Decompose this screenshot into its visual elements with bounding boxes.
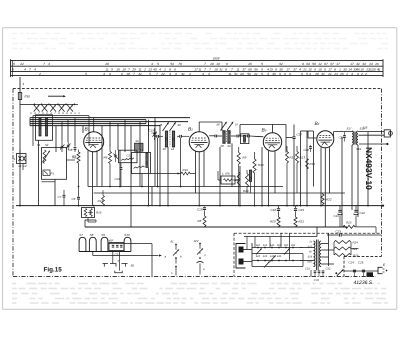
svg-text:4: 4 [103, 72, 105, 76]
resistor R23 horizontal [343, 225, 355, 228]
svg-text:34: 34 [362, 62, 366, 66]
resistor R13 [296, 152, 299, 164]
range pot box [42, 148, 67, 180]
svg-text:C22: C22 [360, 211, 366, 215]
wire B3 anode to C17 [286, 137, 293, 139]
svg-text:7: 7 [204, 67, 206, 71]
output transformer secondary S18 [357, 131, 358, 145]
trimmer C13 [154, 128, 156, 133]
terminal strip numbers [12, 56, 381, 76]
bus corner at 146 [145, 120, 147, 124]
svg-text:R24: R24 [353, 240, 359, 244]
cathode box B3 [241, 134, 249, 144]
svg-text:21: 21 [302, 67, 307, 71]
B4 grid wire [308, 137, 316, 139]
electrolytic C21b [339, 206, 341, 210]
band switch contacts [34, 104, 36, 106]
enclosure dashed border top [13, 88, 382, 90]
svg-text:18: 18 [214, 67, 218, 71]
resistor R9 [237, 153, 240, 165]
resistor R22 [322, 193, 324, 194]
svg-text:13: 13 [148, 67, 152, 71]
svg-text:C24: C24 [349, 261, 355, 265]
svg-text:L1: L1 [19, 164, 23, 168]
svg-text:6: 6 [12, 67, 14, 71]
wire drop to contacts b [119, 251, 121, 271]
wave switch symbol 2 [199, 243, 201, 245]
wire to R10h [151, 173, 182, 175]
resistor R10h [181, 172, 190, 175]
svg-text:5: 5 [306, 72, 308, 76]
trimmer C4 [60, 145, 65, 150]
svg-text:19: 19 [269, 67, 273, 71]
svg-text:17: 17 [286, 67, 290, 71]
svg-text:9: 9 [314, 67, 316, 71]
svg-text:C9: C9 [72, 197, 76, 201]
tube B1 grid wire [93, 118, 95, 132]
pot wiper wire [87, 218, 89, 223]
svg-text:S24: S24 [308, 256, 313, 259]
pushbutton base rail [79, 251, 131, 253]
svg-text:7: 7 [29, 67, 31, 71]
resistor R7 diagonal [134, 166, 145, 169]
svg-text:30: 30 [279, 67, 283, 71]
mains switch arm [337, 270, 344, 276]
grid loop to B3 [240, 124, 286, 126]
feed drops [246, 237, 248, 250]
tube B2 plate coupling [198, 122, 200, 132]
electrolytic C22 [355, 206, 357, 210]
svg-text:94: 94 [306, 62, 310, 66]
pilot lamps L1 L2 [17, 154, 27, 164]
svg-text:36: 36 [272, 72, 276, 76]
svg-text:31: 31 [321, 72, 325, 76]
svg-text:14: 14 [348, 67, 352, 71]
svg-text:2: 2 [360, 72, 363, 76]
cap C18a [247, 135, 249, 138]
svg-text:S7: S7 [79, 233, 83, 237]
svg-text:S9: S9 [101, 233, 105, 237]
svg-text:4: 4 [34, 67, 36, 71]
svg-text:R2: R2 [72, 155, 76, 159]
svg-text:R10: R10 [183, 168, 189, 172]
svg-text:41236 S: 41236 S [354, 280, 373, 286]
cap C19a [277, 208, 280, 210]
svg-text:32: 32 [356, 62, 360, 66]
svg-text:2: 2 [163, 67, 166, 71]
svg-text:26: 26 [339, 72, 344, 76]
svg-text:110: 110 [256, 244, 261, 247]
svg-text:33: 33 [353, 67, 357, 71]
svg-text:S10: S10 [124, 233, 130, 237]
svg-text:17: 17 [328, 67, 332, 71]
svg-text:22: 22 [160, 72, 165, 76]
svg-text:C25: C25 [358, 261, 364, 265]
lower distribution line [85, 226, 347, 228]
svg-text:9: 9 [261, 67, 263, 71]
IFT2 wires [209, 135, 214, 137]
svg-text:13: 13 [163, 147, 167, 151]
svg-text:5: 5 [261, 72, 263, 76]
svg-text:1: 1 [23, 82, 25, 86]
wire drop x152 [151, 186, 153, 206]
cap C17 [293, 125, 295, 137]
svg-text:C17: C17 [297, 133, 303, 137]
svg-text:9: 9 [301, 72, 303, 76]
svg-text:61: 61 [171, 240, 175, 244]
svg-text:220: 220 [283, 244, 289, 247]
svg-text:145: 145 [270, 244, 275, 247]
resistor R20 [277, 217, 280, 227]
tube B1 anode [85, 142, 102, 144]
svg-text:S19: S19 [356, 147, 361, 151]
svg-text:10: 10 [372, 67, 376, 71]
tube B3 cathode [269, 145, 275, 148]
svg-text:8: 8 [334, 67, 336, 71]
svg-text:37: 37 [242, 67, 246, 71]
svg-text:10: 10 [308, 67, 312, 71]
svg-text:4V: 4V [309, 251, 312, 254]
svg-text:28: 28 [104, 62, 109, 66]
svg-text:52: 52 [45, 143, 49, 147]
rectifier wires right [321, 243, 328, 245]
svg-text:8: 8 [169, 67, 171, 71]
svg-text:8: 8 [225, 67, 227, 71]
svg-text:4: 4 [299, 67, 301, 71]
svg-text:31: 31 [219, 67, 223, 71]
svg-text:97: 97 [324, 62, 328, 66]
resistor R12 [286, 152, 289, 164]
svg-text:6: 6 [284, 72, 286, 76]
svg-text:54: 54 [228, 144, 232, 148]
svg-text:56: 56 [247, 72, 251, 76]
svg-text:C21: C21 [334, 214, 340, 218]
svg-text:R16: R16 [96, 211, 102, 215]
svg-text:37: 37 [293, 67, 297, 71]
svg-text:5: 5 [85, 72, 87, 76]
tube B3 anode [265, 142, 280, 144]
svg-text:11: 11 [228, 72, 231, 76]
svg-text:23: 23 [365, 67, 370, 71]
pushbutton units [79, 237, 86, 251]
svg-text:30: 30 [343, 67, 347, 71]
tube B4 anode [318, 139, 332, 141]
resistor R10 [253, 159, 256, 173]
svg-text:4: 4 [169, 72, 171, 76]
cap C10 [120, 163, 122, 167]
antenna coil assembly box [36, 115, 53, 141]
svg-text:S6: S6 [131, 264, 135, 268]
svg-text:63V: 63V [308, 261, 313, 264]
osc coil box [132, 153, 151, 174]
svg-text:R14: R14 [98, 199, 104, 203]
transformer connections [300, 247, 313, 249]
svg-text:6: 6 [357, 72, 359, 76]
svg-text:6: 6 [174, 67, 176, 71]
IFT2 tuning arrows [221, 122, 227, 131]
svg-text:4: 4 [267, 72, 269, 76]
cap on IFT2 right [236, 135, 238, 138]
svg-text:26: 26 [247, 62, 252, 66]
svg-text:1909: 1909 [213, 56, 220, 60]
resistor R24 [334, 241, 351, 244]
wire mains drop from strip [19, 77, 21, 206]
pot box wires [38, 140, 40, 205]
cap C25 [362, 269, 365, 271]
caps to ground under transformer [310, 270, 312, 277]
speaker jack [384, 130, 390, 137]
svg-text:11: 11 [198, 67, 201, 71]
svg-text:20: 20 [314, 72, 319, 76]
feed wire top [244, 236, 317, 238]
enclosure dashed notch horizontal [344, 255, 382, 257]
svg-text:16: 16 [360, 67, 364, 71]
svg-text:245: 245 [276, 255, 282, 258]
svg-text:58: 58 [312, 62, 316, 66]
grid cap C8 [74, 147, 77, 149]
capacitor pack box [109, 243, 124, 251]
terminal strip rails [11, 59, 384, 61]
svg-text:56: 56 [254, 67, 258, 71]
power transformer secondary [320, 241, 322, 267]
svg-text:P1: P1 [51, 171, 55, 175]
svg-text:2: 2 [143, 67, 146, 71]
cap C16 [179, 135, 181, 138]
svg-text:5: 5 [157, 62, 159, 66]
cap C19 [294, 208, 297, 210]
tuning direction arrow [48, 95, 64, 97]
antenna coil winding S3 [45, 118, 47, 136]
svg-text:4: 4 [202, 72, 204, 76]
svg-text:78: 78 [178, 62, 182, 66]
svg-text:2: 2 [38, 72, 41, 76]
svg-text:29: 29 [239, 72, 244, 76]
svg-text:R23: R23 [346, 221, 352, 225]
svg-text:31: 31 [181, 72, 185, 76]
tube B2 anode [191, 142, 208, 144]
supply junction wire [316, 227, 318, 237]
AVC line [88, 186, 283, 188]
coil bank shield box [33, 115, 89, 117]
svg-text:40: 40 [153, 67, 157, 71]
svg-text:R22: R22 [326, 198, 332, 202]
svg-text:54: 54 [136, 139, 140, 143]
band switch S1 rail [34, 103, 79, 105]
svg-text:15: 15 [116, 67, 120, 71]
wire osc coupling [148, 122, 150, 131]
antenna coil winding S2 [39, 118, 41, 136]
svg-text:C31: C31 [305, 268, 310, 271]
svg-text:C18: C18 [197, 208, 203, 212]
svg-text:82k: 82k [353, 247, 358, 251]
svg-text:22: 22 [19, 62, 24, 66]
supply rail top [301, 130, 314, 132]
svg-text:29: 29 [209, 62, 214, 66]
svg-text:17: 17 [336, 62, 340, 66]
svg-text:125: 125 [263, 244, 268, 247]
svg-text:145: 145 [270, 255, 275, 258]
svg-text:6: 6 [226, 62, 228, 66]
tube B1 grids [86, 139, 102, 141]
svg-text:5: 5 [261, 62, 263, 66]
oscillator network box [119, 150, 138, 163]
transformer winding labels [308, 241, 313, 264]
output filter wire [344, 270, 378, 272]
svg-text:S22: S22 [308, 246, 313, 249]
svg-text:C20: C20 [304, 148, 310, 152]
terminal strip left end [10, 59, 12, 77]
svg-text:97: 97 [330, 62, 334, 66]
wire B4 anode to transformer [334, 131, 353, 133]
svg-text:26: 26 [374, 62, 379, 66]
tube B1 pins [87, 151, 89, 187]
tube B3 grids [266, 139, 280, 141]
fuse F1 [18, 93, 21, 100]
svg-text:C11: C11 [127, 154, 132, 158]
svg-text:R9: R9 [243, 156, 247, 160]
pot R2 [43, 150, 46, 164]
terminal strip right end [382, 59, 384, 77]
IFT1 tuning arrows [163, 123, 169, 132]
resistor R25 [334, 247, 351, 250]
wire to switch bank [20, 103, 34, 105]
svg-text:245: 245 [290, 244, 296, 247]
svg-text:7: 7 [204, 62, 206, 66]
IF transformer 2 winding a [223, 131, 225, 144]
svg-text:4: 4 [351, 72, 353, 76]
svg-text:1: 1 [339, 67, 341, 71]
svg-text:11: 11 [236, 67, 239, 71]
wire drops to chassis bus [148, 168, 150, 206]
bus left stub [29, 118, 31, 126]
power transformer primary [313, 241, 315, 267]
svg-text:11: 11 [138, 67, 141, 71]
pushbutton feed wire [92, 252, 94, 256]
svg-text:R20: R20 [270, 220, 276, 224]
svg-text:R19: R19 [243, 189, 249, 193]
svg-text:2: 2 [364, 72, 367, 76]
svg-text:6: 6 [289, 72, 291, 76]
svg-text:T16: T16 [363, 126, 368, 130]
tube B3 pins [268, 151, 270, 206]
svg-text:4: 4 [309, 72, 311, 76]
svg-text:7: 7 [43, 62, 45, 66]
svg-text:51: 51 [234, 72, 238, 76]
IFT1 side wires [154, 131, 156, 136]
wire drop right [151, 244, 153, 277]
enclosure dashed border right [381, 89, 383, 257]
svg-text:19: 19 [216, 62, 220, 66]
svg-text:9: 9 [13, 62, 15, 66]
svg-text:C33: C33 [314, 279, 319, 282]
resistor R19 [246, 174, 249, 188]
svg-text:11: 11 [377, 67, 380, 71]
wire drop to contacts a [112, 251, 114, 264]
decoupling coil S13 [249, 170, 251, 182]
svg-text:6: 6 [121, 72, 123, 76]
cap C23 [327, 234, 339, 236]
svg-text:4: 4 [24, 67, 26, 71]
svg-text:8: 8 [275, 67, 277, 71]
volume pot box [82, 208, 95, 218]
svg-text:11: 11 [105, 67, 108, 71]
svg-text:6: 6 [279, 72, 281, 76]
svg-text:4: 4 [267, 67, 269, 71]
svg-text:R10: R10 [258, 163, 264, 167]
wire drop from box [141, 174, 143, 187]
wire drops from bus [55, 126, 57, 152]
tube B3 envelope [263, 133, 281, 151]
svg-text:C21: C21 [339, 136, 345, 140]
svg-text:7: 7 [133, 72, 135, 76]
tube B2 grids [191, 139, 207, 141]
wave switch symbol 1 [175, 244, 177, 246]
svg-text:3: 3 [48, 62, 50, 66]
svg-text:32: 32 [138, 72, 142, 76]
svg-text:8: 8 [302, 62, 304, 66]
svg-text:R15: R15 [310, 162, 316, 166]
tube B4 pins [320, 148, 322, 206]
suppressor block [367, 272, 374, 277]
svg-text:60: 60 [248, 67, 252, 71]
svg-text:R8: R8 [198, 219, 202, 223]
svg-text:29: 29 [131, 67, 136, 71]
IF transformer 1 winding a [165, 131, 167, 147]
lamp wires [19, 150, 21, 154]
svg-text:49: 49 [178, 123, 182, 127]
band switch contact numbers [30, 112, 80, 115]
svg-text:5: 5 [149, 72, 151, 76]
resistor R20a [203, 216, 206, 227]
enclosure dashed border bottom [13, 276, 376, 278]
svg-text:58: 58 [221, 144, 225, 148]
svg-text:110: 110 [256, 255, 261, 258]
svg-text:57: 57 [235, 123, 239, 127]
svg-text:3: 3 [208, 72, 210, 76]
svg-text:48: 48 [159, 123, 163, 127]
svg-text:17: 17 [194, 67, 198, 71]
IF transformer 1 winding b [172, 131, 174, 147]
svg-text:C14: C14 [152, 131, 158, 135]
resistor R21 [294, 217, 297, 227]
tube B4 envelope [317, 131, 334, 148]
switch contact brackets [103, 264, 109, 267]
plug wires [244, 249, 253, 251]
svg-text:R26: R26 [353, 253, 359, 257]
svg-text:4: 4 [159, 67, 161, 71]
svg-text:7: 7 [231, 67, 233, 71]
selector contact arms [256, 249, 262, 255]
svg-text:7: 7 [156, 72, 158, 76]
tube B2 envelope [189, 132, 209, 152]
coil wiring bus lines [30, 117, 190, 119]
svg-text:6: 6 [109, 72, 111, 76]
svg-text:R12: R12 [290, 156, 296, 160]
cap on IFT2 left [214, 135, 216, 138]
svg-text:C8: C8 [69, 148, 73, 152]
svg-text:S8: S8 [90, 233, 94, 237]
svg-text:21: 21 [253, 72, 258, 76]
svg-text:10: 10 [318, 67, 322, 71]
svg-text:C18: C18 [271, 208, 277, 212]
cap C21 on primary [343, 135, 346, 137]
svg-text:1. 47k: 1. 47k [222, 172, 230, 176]
svg-text:14: 14 [171, 147, 175, 151]
enclosure dashed border left [12, 89, 14, 277]
resistor R14 [102, 196, 105, 206]
svg-text:56: 56 [217, 123, 221, 127]
svg-text:18: 18 [126, 72, 130, 76]
